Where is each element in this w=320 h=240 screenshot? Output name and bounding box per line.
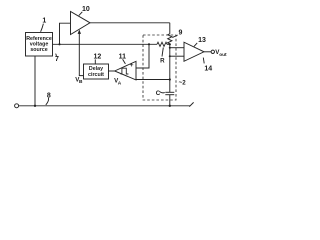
svg-text:11: 11 (119, 53, 127, 60)
svg-text:+: + (130, 62, 134, 69)
svg-text:12: 12 (94, 54, 102, 61)
svg-text:~2: ~2 (179, 80, 187, 87)
svg-text:C: C (156, 90, 161, 97)
svg-text:R: R (160, 57, 165, 64)
svg-text:B: B (79, 79, 83, 85)
svg-text:circuit: circuit (88, 72, 104, 78)
svg-text:source: source (30, 47, 47, 53)
svg-text:A: A (118, 80, 122, 86)
svg-text:out: out (219, 52, 227, 58)
svg-text:8: 8 (47, 93, 51, 100)
svg-text:10: 10 (82, 6, 90, 13)
svg-text:14: 14 (204, 65, 212, 72)
svg-text:1: 1 (42, 18, 46, 25)
svg-text:7: 7 (55, 56, 59, 63)
svg-text:9: 9 (178, 29, 182, 36)
svg-text:13: 13 (198, 37, 206, 44)
